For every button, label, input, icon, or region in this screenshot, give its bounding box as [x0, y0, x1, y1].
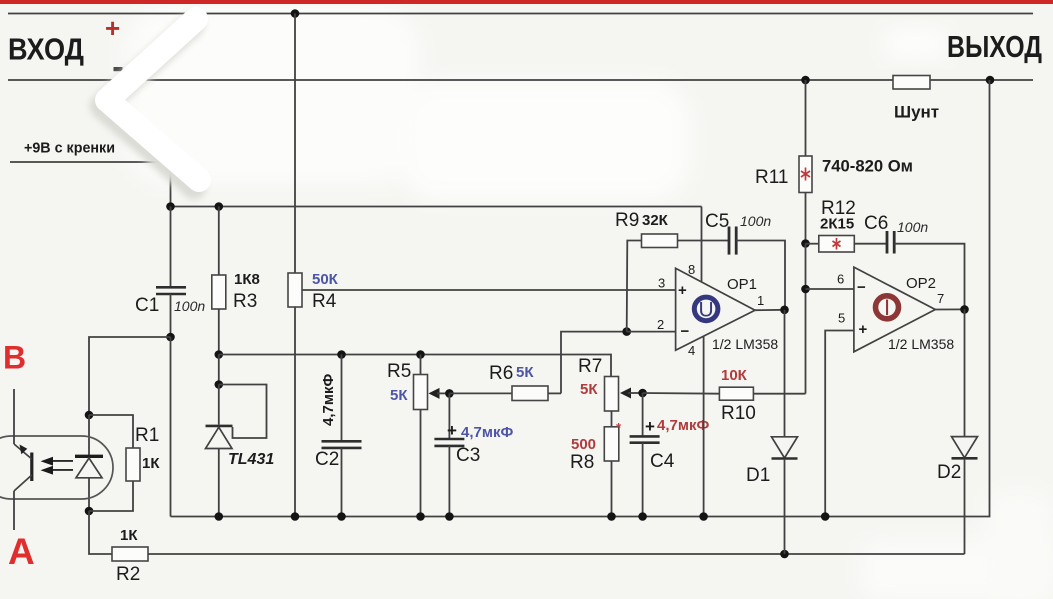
diode D2 — [937, 309, 978, 554]
wire opto LED cathode — [89, 337, 171, 415]
svg-text:R7: R7 — [578, 356, 602, 377]
node TL431 anode / ground bus — [215, 512, 224, 521]
svg-text:U: U — [699, 299, 714, 322]
wire C6 to OP2 output — [894, 244, 964, 310]
svg-text:+: + — [447, 421, 457, 440]
svg-text:2К15: 2К15 — [820, 216, 854, 233]
opto light arrows — [41, 457, 74, 475]
wire +9V supply — [10, 162, 702, 207]
svg-text:100n: 100n — [740, 213, 771, 229]
node R3 / reference bus — [215, 350, 224, 359]
svg-text:100n: 100n — [174, 298, 205, 314]
resistor R8 — [570, 411, 622, 517]
svg-text:TL431: TL431 — [228, 451, 274, 468]
node C1 / opto LED wire — [166, 333, 175, 342]
node R4 tap on VIN+ rail — [291, 9, 300, 18]
svg-text:+: + — [859, 321, 868, 338]
node LED cathode / R1 — [85, 411, 94, 420]
wire LED anode to R2 — [89, 511, 112, 554]
wire C1 to ground bus — [170, 337, 172, 517]
svg-text:3: 3 — [658, 276, 665, 291]
svg-text:R5: R5 — [387, 361, 411, 382]
tl431 U2 — [206, 385, 275, 517]
svg-text:I: I — [884, 295, 890, 320]
svg-text:D2: D2 — [937, 462, 961, 483]
svg-text:B: B — [3, 340, 26, 376]
svg-text:−: − — [857, 279, 866, 296]
wire R7 wiper to R10 — [643, 392, 720, 395]
capacitor C5 — [705, 211, 771, 255]
node R5 wiper / C3 — [445, 389, 454, 398]
svg-text:+: + — [105, 13, 120, 43]
svg-text:1: 1 — [757, 293, 764, 308]
wire R6 to OP1 pin2 — [561, 332, 627, 394]
svg-text:R1: R1 — [135, 425, 159, 446]
resistor Шунт — [893, 76, 939, 122]
op-amp OP2 — [837, 267, 954, 352]
opto LED — [75, 415, 103, 511]
node OP2 pin6 — [801, 285, 810, 294]
svg-text:1К: 1К — [142, 455, 160, 472]
resistor R2 — [112, 527, 148, 585]
svg-text:C5: C5 — [705, 211, 729, 232]
node C3 / ground bus — [445, 512, 454, 521]
svg-text:10К: 10К — [721, 367, 748, 384]
svg-text:+: + — [678, 282, 687, 299]
svg-text:7: 7 — [937, 291, 944, 306]
svg-text:A: A — [8, 531, 35, 572]
resistor R10 — [719, 367, 805, 424]
capacitor C4 — [630, 393, 710, 517]
capacitor C2 — [315, 355, 362, 517]
svg-text:2: 2 — [657, 317, 664, 332]
svg-text:6: 6 — [837, 272, 844, 287]
wire OP2 pin6 — [806, 288, 854, 290]
svg-text:C2: C2 — [315, 449, 339, 470]
potentiometer R7 — [578, 356, 643, 411]
svg-text:4,7мкФ: 4,7мкФ — [320, 374, 337, 426]
svg-text:1К8: 1К8 — [234, 271, 260, 288]
svg-text:D1: D1 — [746, 465, 770, 486]
diode D1 — [746, 310, 798, 554]
capacitor C1 — [135, 207, 205, 338]
node +9V / R3 — [215, 202, 224, 211]
opto phototransistor — [14, 444, 32, 491]
svg-text:ВЫХОД: ВЫХОД — [947, 29, 1042, 64]
svg-text:R6: R6 — [489, 363, 513, 384]
resistor R1 — [89, 415, 160, 511]
resistor R9 — [615, 210, 729, 332]
svg-text:ВХОД: ВХОД — [8, 32, 84, 67]
node R5 / ground bus — [416, 512, 425, 521]
svg-text:5К: 5К — [390, 387, 408, 404]
svg-text:OP1: OP1 — [727, 276, 757, 293]
svg-text:+: + — [645, 417, 655, 436]
svg-text:50К: 50К — [312, 271, 339, 288]
svg-text:C1: C1 — [135, 295, 159, 316]
node ref bus / R5 — [416, 350, 425, 359]
node LED anode / R1 — [85, 507, 94, 516]
node OP2 output — [960, 305, 969, 314]
node C2 / ground bus — [337, 512, 346, 521]
wire OP1 output — [755, 309, 785, 311]
node C4 / ground bus — [638, 512, 647, 521]
op-amp OP1 — [657, 262, 778, 358]
capacitor C6 — [864, 213, 928, 254]
wire C5 to OP1 output — [736, 241, 785, 310]
svg-text:8: 8 — [688, 262, 695, 277]
svg-text:C3: C3 — [456, 445, 480, 466]
svg-text:5: 5 — [838, 311, 845, 326]
svg-text:C4: C4 — [650, 451, 675, 472]
node +9V / C1 — [166, 202, 175, 211]
svg-text:R11: R11 — [755, 167, 788, 188]
potentiometer R5 — [387, 355, 449, 517]
wire OP2 output — [935, 308, 964, 310]
wire ground bus — [171, 80, 990, 517]
svg-text:5К: 5К — [516, 364, 534, 381]
svg-text:OP2: OP2 — [906, 275, 936, 292]
resistor R12 — [806, 198, 888, 252]
node return tap on VIN- rail — [986, 76, 995, 85]
node OP1 pin4 / ground bus — [699, 512, 708, 521]
svg-text:R9: R9 — [615, 210, 639, 231]
wire VIN- rail — [8, 79, 1033, 81]
node OP2 pin5 / ground bus — [821, 512, 830, 521]
node OP1 output — [780, 306, 789, 315]
wire VIN+ top rail — [8, 13, 1033, 15]
svg-text:R3: R3 — [233, 291, 257, 312]
node R7 wiper / C4 — [638, 389, 647, 398]
svg-text:500: 500 — [571, 436, 596, 453]
optocoupler body — [0, 436, 113, 499]
node R11 tap on VIN- rail — [801, 76, 810, 85]
svg-text:Шунт: Шунт — [894, 103, 939, 122]
wire OP2 pin5 — [825, 331, 854, 517]
wire R10 to OP2 pin6 node — [805, 289, 807, 394]
svg-text:100n: 100n — [897, 219, 928, 235]
wire R12 node to OP2 pin6 — [805, 244, 807, 290]
wire R2 to diodes D1 D2 — [148, 553, 965, 555]
svg-text:740-820 Ом: 740-820 Ом — [822, 157, 913, 176]
svg-text:4,7мкФ: 4,7мкФ — [461, 424, 513, 441]
potentiometer R4 — [288, 14, 339, 517]
svg-text:32К: 32К — [642, 212, 669, 229]
wire reference bus to R7 — [219, 355, 611, 377]
svg-text:R8: R8 — [570, 452, 594, 473]
wire opto collector pin B — [13, 389, 15, 444]
svg-text:R4: R4 — [312, 291, 337, 312]
wire OP1 pin 8 supply — [701, 207, 703, 283]
node R4 / ground bus — [291, 512, 300, 521]
node TL431 ref — [215, 380, 224, 389]
resistor R6 — [449, 363, 561, 401]
svg-text:4,7мкФ: 4,7мкФ — [657, 417, 709, 434]
svg-text:С6: С6 — [864, 213, 888, 234]
node R11 / R12 / C6 — [801, 239, 810, 248]
wire TL431 cathode — [218, 355, 220, 385]
svg-text:R10: R10 — [721, 403, 756, 424]
resistor R3 — [212, 207, 260, 355]
svg-text:−: − — [681, 323, 690, 340]
svg-text:5К: 5К — [580, 381, 598, 398]
node D1 / R2 wire — [780, 550, 789, 559]
wire R4 tap to OP1 pin3 — [302, 289, 676, 291]
node OP1 pin2 / R9 — [622, 327, 631, 336]
label − polarity — [114, 67, 123, 71]
svg-text:+9В с кренки: +9В с кренки — [24, 141, 115, 157]
node R8 / ground bus — [607, 512, 616, 521]
resistor R11 — [755, 80, 913, 244]
wire opto emitter pin A — [13, 491, 15, 530]
node ref bus / C2 — [337, 350, 346, 359]
svg-text:R2: R2 — [116, 564, 140, 585]
svg-text:1К: 1К — [120, 527, 138, 544]
svg-text:4: 4 — [688, 343, 695, 358]
svg-text:1/2 LM358: 1/2 LM358 — [712, 336, 778, 352]
wire OP1 pin4 to ground — [703, 336, 705, 516]
capacitor C3 — [434, 393, 513, 516]
wire pin2 into OP1 — [627, 331, 676, 333]
svg-text:1/2 LM358: 1/2 LM358 — [888, 336, 954, 352]
